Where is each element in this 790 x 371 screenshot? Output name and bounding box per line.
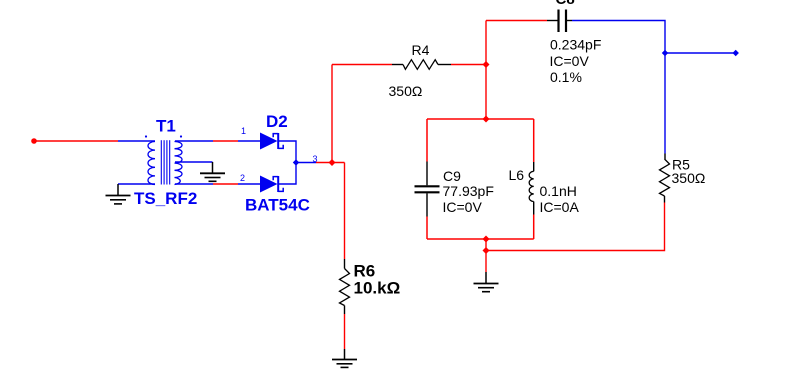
svg-text:R4: R4 xyxy=(412,42,430,58)
pin stub bottom-left xyxy=(118,183,155,185)
wire pin3 stub xyxy=(296,162,316,164)
tank box bottom wire xyxy=(427,238,534,240)
svg-text:10.kΩ: 10.kΩ xyxy=(354,279,401,298)
center tap stub xyxy=(175,161,213,163)
svg-text:T1: T1 xyxy=(156,117,176,136)
wire tank bottom to node xyxy=(485,239,487,251)
ground (T1 primary) xyxy=(106,184,131,204)
phase dot right xyxy=(180,135,182,137)
secondary winding xyxy=(175,142,183,185)
diode D2 bottom (anode pin 2) xyxy=(238,176,283,193)
svg-text:TS_RF2: TS_RF2 xyxy=(134,189,197,208)
wire T1 to D2 pin1 xyxy=(213,140,238,142)
inductor L6 (right branch of tank) xyxy=(529,119,534,239)
resistor R6 xyxy=(340,259,350,314)
svg-text:IC=0A: IC=0A xyxy=(540,199,580,215)
svg-text:1: 1 xyxy=(241,126,246,136)
junction dot at R4 branch xyxy=(329,159,336,166)
svg-text:77.93pF: 77.93pF xyxy=(443,183,494,199)
diode D2 top (anode pin 1) xyxy=(238,133,283,150)
svg-text:2: 2 xyxy=(240,173,245,183)
pin stub top-left xyxy=(118,140,155,142)
svg-text:350Ω: 350Ω xyxy=(389,83,423,99)
wire C8 right to corner and down to R5 xyxy=(572,21,665,154)
svg-text:0.234pF: 0.234pF xyxy=(550,37,601,53)
phase dot left xyxy=(145,135,147,137)
wire R4 to junction xyxy=(451,64,486,66)
svg-text:IC=0V: IC=0V xyxy=(443,199,483,215)
primary winding xyxy=(148,142,155,185)
wire to C8 left xyxy=(486,20,547,22)
ground (T1 center tap) xyxy=(200,162,225,181)
svg-text:D2: D2 xyxy=(266,112,288,131)
wire common cathode xyxy=(278,141,296,184)
transformer T1 xyxy=(118,140,213,184)
junction dot tank bottom xyxy=(483,236,490,243)
junction dot ground node xyxy=(483,247,490,254)
svg-text:0.1nH: 0.1nH xyxy=(540,183,577,199)
output port dot xyxy=(733,50,739,56)
svg-text:C9: C9 xyxy=(443,168,461,184)
pin stub bottom-right xyxy=(175,183,213,185)
svg-text:C8: C8 xyxy=(556,0,575,8)
tank box top wire xyxy=(427,118,534,120)
svg-text:IC=0V: IC=0V xyxy=(550,53,590,69)
wire input to T1 primary xyxy=(36,140,118,142)
ground (R6) xyxy=(332,349,357,367)
capacitor C9 (left branch of tank) xyxy=(415,119,440,239)
capacitor C8 xyxy=(547,10,572,33)
pin stub top-right xyxy=(175,140,213,142)
input port dot xyxy=(31,138,37,144)
wire pin3 to vertical xyxy=(316,162,345,164)
wire to output port xyxy=(665,52,734,54)
svg-text:350Ω: 350Ω xyxy=(672,170,706,186)
wire to R4 left xyxy=(332,64,392,66)
svg-text:0.1%: 0.1% xyxy=(550,69,582,85)
wire T1 to D2 pin2 xyxy=(213,183,238,185)
wire vertical down to R6 xyxy=(344,163,346,260)
wire R6 to ground xyxy=(344,314,346,349)
junction dot right of R4 xyxy=(483,61,490,68)
svg-text:L6: L6 xyxy=(509,167,525,183)
resistor R5 xyxy=(660,154,670,203)
wire vertical up to R4 xyxy=(331,65,333,163)
junction dot output xyxy=(662,50,668,56)
core lines xyxy=(160,140,162,184)
svg-text:BAT54C: BAT54C xyxy=(245,196,310,215)
resistor R4 xyxy=(392,60,451,70)
wire ground node down xyxy=(485,251,487,273)
wire R5 bottom to tank bottom xyxy=(486,203,665,251)
ground (tank) xyxy=(474,272,499,292)
wire vertical C8 branch xyxy=(485,21,487,120)
node pin3 (blue junction) xyxy=(293,159,299,165)
junction dot tank top xyxy=(483,116,490,123)
